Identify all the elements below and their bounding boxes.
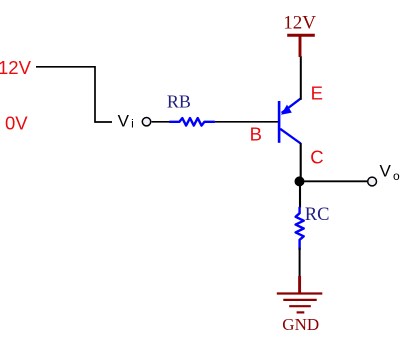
svg-text:0V: 0V <box>5 113 28 134</box>
svg-text:12V: 12V <box>0 57 32 78</box>
wire node to Vo terminal <box>301 180 367 182</box>
wire RC to ground <box>299 248 301 277</box>
power supply bar <box>287 34 315 37</box>
ground symbol <box>277 294 323 313</box>
wire emitter to supply <box>300 56 302 100</box>
terminal Vo <box>368 177 377 186</box>
junction node <box>295 176 305 186</box>
resistor RC <box>296 207 304 250</box>
ground stub <box>298 276 301 293</box>
power supply stub <box>299 35 302 57</box>
svg-text:B: B <box>250 124 262 145</box>
svg-text:E: E <box>311 83 323 104</box>
svg-text:12V: 12V <box>283 13 316 34</box>
wire RB to base <box>215 121 278 123</box>
transistor Q1 emitter with PNP arrow <box>281 99 301 115</box>
resistor RB <box>169 118 215 126</box>
wire collector to node <box>300 143 302 181</box>
svg-text:GND: GND <box>282 315 319 334</box>
wire node to RC <box>299 183 301 208</box>
transistor Q1 collector <box>280 129 301 144</box>
wire Vi terminal to RB <box>152 121 171 123</box>
terminal Vi <box>142 118 150 126</box>
svg-text:RC: RC <box>305 205 330 225</box>
wire input step waveform <box>36 67 112 122</box>
svg-text:RB: RB <box>167 92 191 112</box>
transistor Q1 base bar <box>278 101 281 143</box>
svg-text:C: C <box>310 146 323 167</box>
